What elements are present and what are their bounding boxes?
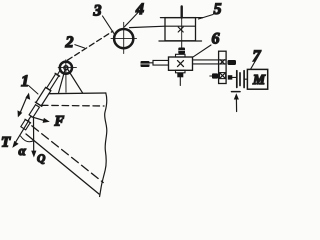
gearbox left shaft (open double line) bbox=[153, 60, 169, 65]
gearbox 6 bbox=[169, 54, 193, 73]
bottom-left coupling (hatched) bbox=[210, 73, 218, 78]
belt drive (tall rectangle) bbox=[219, 51, 227, 83]
svg-text:5: 5 bbox=[214, 1, 222, 18]
gearbox right shaft double line bbox=[193, 60, 227, 64]
drum-gearbox coupling (hatched) bbox=[178, 48, 185, 55]
A-frame support bbox=[59, 69, 83, 93]
svg-text:2: 2 bbox=[65, 34, 74, 51]
svg-text:4: 4 bbox=[135, 1, 144, 18]
leader 2 bbox=[75, 45, 85, 48]
leader 4 bbox=[125, 13, 139, 27]
guide pulley (on A-frame) bbox=[58, 60, 76, 93]
force F arrow bbox=[32, 117, 50, 123]
top shaft end coupling (hatched) bbox=[228, 60, 237, 65]
ground line (platform top edge) bbox=[49, 92, 106, 95]
incline hidden line (dashed) bbox=[32, 126, 103, 183]
leader 7 bbox=[251, 62, 255, 69]
platform hidden edge (dashed) bbox=[42, 104, 105, 107]
load rod 1 (tackle on cable, rotated group) bbox=[20, 68, 64, 130]
leader 3 bbox=[103, 16, 114, 33]
pulley 4 bbox=[111, 22, 137, 53]
svg-text:3: 3 bbox=[93, 3, 102, 20]
force T arrow (along incline) bbox=[12, 121, 29, 148]
svg-text:1: 1 bbox=[21, 73, 29, 90]
angle alpha arc bbox=[21, 136, 35, 142]
upward arrow bbox=[234, 93, 239, 111]
leader 1 bbox=[29, 86, 39, 95]
incline bottom edge (solid) bbox=[26, 134, 99, 194]
svg-text:M: M bbox=[252, 72, 266, 87]
break (wavy) line bbox=[100, 93, 107, 197]
force Q arrow (vertical) bbox=[31, 118, 36, 158]
svg-text:α: α bbox=[19, 143, 27, 158]
motor coupling bars bbox=[237, 71, 248, 88]
motor 7 bbox=[247, 69, 267, 89]
gearbox bottom coupling bbox=[177, 73, 183, 86]
left shaft coupling (hatched) bbox=[141, 61, 154, 67]
mount tick under coupling bbox=[232, 91, 241, 93]
leader 6 bbox=[193, 45, 211, 57]
svg-text:6: 6 bbox=[212, 31, 220, 48]
leader 5 bbox=[199, 15, 214, 20]
drum 5 bbox=[159, 7, 203, 48]
svg-text:Q: Q bbox=[37, 153, 45, 165]
bottom shaft to motor with coupling blob bbox=[228, 75, 236, 79]
svg-text:F: F bbox=[54, 114, 65, 130]
svg-text:T: T bbox=[1, 135, 11, 151]
double motion arrow along incline bbox=[18, 93, 31, 118]
rope from pulley 4 to drum bbox=[130, 26, 166, 27]
cable 2 (dashed) from guide pulley to pulley 4 bbox=[67, 31, 112, 60]
